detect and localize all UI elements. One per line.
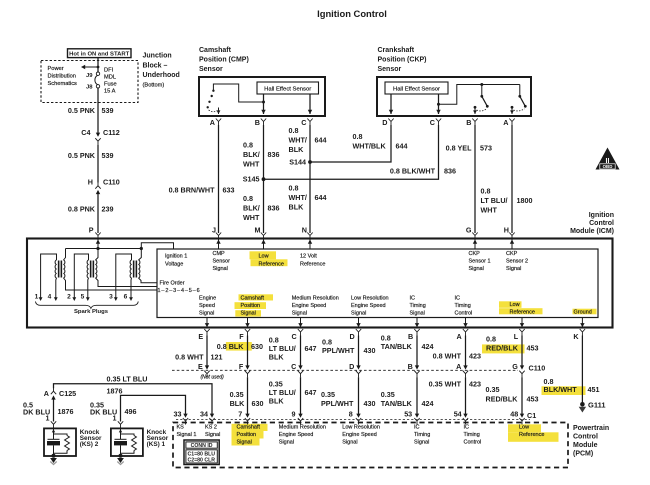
spark plugs brace: [35, 302, 138, 309]
svg-text:Engine: Engine: [199, 296, 216, 302]
svg-text:BLK: BLK: [269, 353, 285, 362]
svg-text:Ground: Ground: [574, 310, 592, 316]
CKP internal bus from hall to trigger switches: [439, 85, 520, 105]
spark plug 4 wire: [55, 278, 58, 298]
svg-text:B: B: [255, 118, 260, 127]
highlight: Low Reference (ICM pin M label): [250, 251, 277, 259]
svg-text:A: A: [503, 118, 508, 127]
svg-text:Low Resolution: Low Resolution: [351, 296, 389, 302]
svg-text:E: E: [198, 332, 203, 341]
svg-text:S145: S145: [243, 175, 260, 184]
svg-text:0.8 YEL: 0.8 YEL: [446, 144, 472, 153]
svg-text:IC: IC: [414, 424, 420, 430]
svg-text:S144: S144: [289, 158, 306, 167]
wire: 0.8 BLK/WHT 836 (S145 to ICM M): [263, 179, 265, 233]
powertrain control module (PCM) dashed box: [173, 423, 568, 468]
svg-text:647: 647: [305, 388, 317, 397]
svg-text:8: 8: [349, 409, 353, 418]
svg-text:Hot in ON and START: Hot in ON and START: [69, 51, 130, 57]
svg-text:0.8: 0.8: [289, 126, 299, 135]
svg-text:(PCM): (PCM): [573, 451, 593, 458]
svg-text:C112: C112: [103, 128, 120, 137]
svg-text:Spark Plugs: Spark Plugs: [74, 309, 109, 315]
svg-text:BLK/: BLK/: [243, 204, 260, 213]
svg-text:WHT/: WHT/: [289, 193, 307, 202]
pin A (ICM bottom): [465, 318, 467, 324]
svg-text:1: 1: [46, 413, 50, 422]
svg-text:IC: IC: [464, 424, 470, 430]
knock sensor KS2: [44, 428, 76, 456]
svg-text:Sensor: Sensor: [378, 66, 402, 73]
svg-text:239: 239: [102, 205, 114, 214]
svg-text:644: 644: [396, 142, 408, 151]
CONN ID table: [184, 440, 219, 465]
ignition coil 2: [87, 260, 97, 278]
svg-text:J8: J8: [86, 85, 93, 91]
ICM inner module block: [157, 249, 598, 318]
fuse: DFI MDL Fuse 15 A: [96, 72, 99, 75]
svg-text:BLK: BLK: [269, 397, 285, 406]
svg-text:0.8 BLK: 0.8 BLK: [217, 342, 245, 351]
wire: 0.8 BLK 630 (ICM F to connector): [247, 340, 249, 366]
svg-text:TAN/BLK: TAN/BLK: [381, 342, 413, 351]
svg-text:Position: Position: [241, 303, 261, 309]
svg-text:D: D: [382, 118, 387, 127]
svg-text:1876: 1876: [58, 407, 74, 416]
svg-text:C110: C110: [103, 178, 120, 187]
svg-text:BLK/WHT: BLK/WHT: [544, 385, 578, 394]
svg-text:F: F: [239, 362, 244, 371]
CMP hall leg to pin C: [309, 94, 311, 114]
svg-text:4: 4: [48, 294, 52, 301]
svg-text:D: D: [349, 362, 354, 371]
svg-text:2: 2: [67, 294, 71, 301]
svg-text:WHT: WHT: [481, 206, 498, 215]
svg-text:CKP: CKP: [506, 251, 518, 257]
svg-text:0.35: 0.35: [486, 385, 500, 394]
svg-text:B: B: [466, 118, 471, 127]
svg-text:Sensor 2: Sensor 2: [506, 258, 528, 264]
svg-text:15 A: 15 A: [104, 89, 116, 95]
wire: 0.8 WHT 121 (ICM E to connector): [206, 340, 208, 366]
wire: feed from Hot box into junction block: [97, 58, 99, 72]
svg-text:Signal 1: Signal 1: [177, 432, 197, 438]
svg-text:Signal: Signal: [414, 439, 429, 445]
svg-text:RED/BLK: RED/BLK: [486, 344, 519, 353]
svg-text:IC: IC: [455, 296, 461, 302]
svg-text:KS: KS: [177, 424, 185, 430]
knock sensor KS1: [111, 428, 143, 456]
svg-text:Sensor: Sensor: [213, 258, 231, 264]
svg-text:Timing: Timing: [414, 432, 430, 438]
svg-text:Low Resolution: Low Resolution: [342, 424, 380, 430]
svg-text:Schematics: Schematics: [48, 81, 78, 87]
wire: 0.8 BRN/WHT 633 (CMP A to ICM J): [218, 125, 220, 233]
svg-text:633: 633: [223, 186, 235, 195]
svg-text:Powertrain: Powertrain: [573, 425, 609, 432]
wire: 0.8 WHT/BLK 644 (CKP D to S144): [310, 125, 391, 162]
svg-text:Signal: Signal: [351, 311, 366, 317]
svg-text:Reference: Reference: [510, 310, 535, 316]
svg-text:Crankshaft: Crankshaft: [378, 47, 415, 54]
svg-text:Camshaft: Camshaft: [237, 424, 261, 430]
svg-text:Ignition Control: Ignition Control: [317, 8, 387, 19]
svg-text:J9: J9: [86, 73, 93, 79]
svg-text:0.8: 0.8: [289, 184, 299, 193]
svg-text:C2=80 CLR: C2=80 CLR: [188, 458, 216, 464]
svg-text:0.8: 0.8: [353, 132, 363, 141]
svg-text:Distribution: Distribution: [48, 74, 76, 80]
svg-text:BLK: BLK: [230, 399, 246, 408]
svg-text:430: 430: [364, 399, 376, 408]
svg-text:Power: Power: [48, 66, 64, 72]
ignition coil 1: [55, 260, 65, 278]
svg-text:0.35: 0.35: [321, 390, 335, 399]
wire: 0.8 LT BLU/WHT 1800 (CKP A to ICM H): [511, 125, 513, 233]
svg-text:F: F: [239, 332, 244, 341]
wire: 0.8 PPL/WHT 430 (ICM D to connector): [358, 340, 360, 366]
svg-text:A: A: [456, 362, 461, 371]
svg-text:Engine Speed: Engine Speed: [292, 303, 327, 309]
wire: 0.8 BLK/WHT 836 (CMP B to splice S145): [263, 125, 265, 179]
svg-text:539: 539: [102, 151, 114, 160]
svg-text:Low: Low: [259, 254, 269, 260]
svg-text:Camshaft: Camshaft: [199, 47, 232, 54]
wire: 0.35 DK BLU 496 (KS1 to PCM 33): [121, 395, 186, 421]
svg-text:D: D: [349, 332, 354, 341]
svg-text:0.35 WHT: 0.35 WHT: [429, 380, 462, 389]
CMP switch output to pin A: [218, 108, 220, 115]
svg-text:Sensor: Sensor: [199, 66, 223, 73]
svg-text:453: 453: [527, 344, 539, 353]
ignition 1 voltage bus inside ICM: [66, 243, 174, 249]
svg-text:423: 423: [469, 380, 481, 389]
svg-text:Position (CKP): Position (CKP): [378, 57, 427, 64]
svg-text:PPL/WHT: PPL/WHT: [321, 399, 354, 408]
wire: 0.5 PNK 539 (fuse to C112): [97, 88, 99, 136]
svg-text:OBD: OBD: [603, 164, 613, 169]
svg-text:430: 430: [364, 346, 376, 355]
svg-text:Underhood: Underhood: [143, 72, 180, 79]
svg-text:C: C: [291, 332, 296, 341]
svg-text:54: 54: [454, 409, 462, 418]
spark plug 6 wire: [130, 278, 133, 298]
pin B (ICM bottom): [416, 318, 418, 324]
svg-text:6: 6: [124, 294, 128, 301]
wire: 0.8 WHT/BLK 644 (CMP C to splice S144): [309, 125, 311, 162]
svg-text:Signal: Signal: [469, 266, 484, 272]
wire: 0.8 PNK 239 (C110 to ICM pin P): [97, 194, 99, 233]
svg-text:Reference: Reference: [519, 432, 544, 438]
coil 2 primary feed stub: [96, 249, 99, 261]
wire: 0.35 LT BLU 1876 (C125 to PCM 34): [54, 384, 213, 415]
CKP hall leg to pin D: [390, 94, 392, 114]
svg-text:0.35: 0.35: [230, 390, 244, 399]
svg-text:Signal: Signal: [292, 311, 307, 317]
ground G111: [580, 402, 585, 407]
svg-text:121: 121: [211, 353, 223, 362]
svg-text:Hall Effect Sensor: Hall Effect Sensor: [393, 86, 440, 92]
coil 3 primary feed stub: [139, 249, 142, 261]
svg-text:BLK/: BLK/: [243, 150, 260, 159]
svg-text:12 Volt: 12 Volt: [300, 254, 317, 260]
svg-text:C1: C1: [527, 411, 536, 420]
svg-text:WHT/: WHT/: [289, 136, 307, 145]
pin F (ICM bottom): [247, 318, 249, 324]
svg-text:Position (CMP): Position (CMP): [199, 57, 249, 64]
wire: 0.5 PNK 539 (C112 to C110): [97, 145, 99, 183]
svg-text:WHT: WHT: [243, 213, 260, 222]
svg-text:5: 5: [81, 294, 85, 301]
ignition coil 3: [130, 260, 140, 278]
wire: 0.8 LT BLU/BLK 647 (ICM C to connector): [300, 340, 302, 366]
svg-text:1: 1: [113, 413, 117, 422]
wire: 0.8 BLK/WHT 836 (CKP C to S145): [264, 125, 439, 179]
highlight: BLK in wire label 0.8 BLK 630: [226, 342, 252, 351]
svg-text:J: J: [212, 226, 216, 235]
coil 1 control line to module: [64, 278, 158, 290]
pin C (ICM bottom): [300, 318, 302, 324]
svg-text:0.35 LT BLU: 0.35 LT BLU: [107, 375, 148, 384]
connector C112 pin C4: [96, 133, 100, 137]
svg-text:451: 451: [588, 385, 600, 394]
CMP trigger switch symbol: [213, 84, 263, 102]
pin K (ICM bottom): [581, 318, 583, 324]
connector C110 pin H (feed): [95, 182, 100, 189]
svg-text:48: 48: [510, 409, 518, 418]
svg-text:C4: C4: [81, 128, 90, 137]
crankshaft position sensor box: [377, 77, 531, 116]
svg-text:Position: Position: [237, 432, 257, 438]
connector C125 pin A: [51, 388, 56, 395]
highlight: Low Reference (ICM pin L label): [499, 301, 522, 308]
node: Hot in ON and START feed box: [68, 49, 132, 58]
svg-text:424: 424: [422, 399, 434, 408]
svg-text:Timing: Timing: [455, 303, 471, 309]
svg-text:Module (ICM): Module (ICM): [570, 228, 614, 235]
svg-text:Medium Resolution: Medium Resolution: [292, 296, 339, 302]
inline connector line (ICM harness): [172, 369, 518, 371]
wire: 0.35 WHT 423 (to PCM 54): [465, 377, 467, 414]
svg-text:Control: Control: [589, 220, 614, 227]
svg-text:7: 7: [238, 409, 242, 418]
highlight: Ground (ICM pin K label): [573, 309, 597, 315]
svg-text:0.8 BRN/WHT: 0.8 BRN/WHT: [169, 186, 216, 195]
svg-text:A: A: [44, 389, 49, 398]
svg-text:Speed: Speed: [199, 303, 215, 309]
highlight: BLK/WHT in wire label 0.8 BLK/WHT 451: [542, 386, 586, 395]
svg-text:0.8: 0.8: [243, 194, 253, 203]
svg-text:RED/BLK: RED/BLK: [486, 395, 519, 404]
svg-text:Ignition: Ignition: [589, 212, 614, 219]
wire: 0.8 WHT 423 (ICM A to connector): [465, 340, 467, 366]
svg-text:423: 423: [469, 352, 481, 361]
svg-text:9: 9: [292, 409, 296, 418]
wire: 0.35 RED/BLK 453 (to PCM 48): [521, 377, 523, 414]
svg-text:Hall Effect Sensor: Hall Effect Sensor: [264, 86, 311, 92]
svg-text:1800: 1800: [517, 196, 533, 205]
svg-text:Reference: Reference: [259, 262, 284, 268]
coil 1 primary feed stub: [64, 249, 66, 261]
svg-text:0.8: 0.8: [486, 335, 496, 344]
svg-text:G111: G111: [588, 401, 606, 410]
svg-text:G: G: [512, 362, 518, 371]
svg-text:Timing: Timing: [464, 432, 480, 438]
svg-text:Sensor 1: Sensor 1: [469, 258, 491, 264]
svg-text:0.5 PNK: 0.5 PNK: [68, 151, 96, 160]
highlight: RED/BLK in wire label 0.8 RED/BLK 453: [482, 344, 525, 353]
svg-text:Module: Module: [573, 442, 598, 449]
svg-text:0.8 WHT: 0.8 WHT: [175, 353, 204, 362]
wire: 0.35 PPL/WHT 430 (to PCM 8): [358, 377, 360, 414]
node: P feed junction: [96, 247, 99, 250]
svg-text:Signal: Signal: [410, 311, 425, 317]
svg-text:KS 2: KS 2: [205, 424, 217, 430]
pin E (ICM bottom): [206, 318, 208, 324]
svg-text:Timing: Timing: [410, 303, 426, 309]
svg-text:C125: C125: [59, 389, 76, 398]
CKP trigger switch 1: [481, 85, 483, 97]
svg-text:1876: 1876: [107, 387, 123, 396]
svg-text:Engine Speed: Engine Speed: [351, 303, 386, 309]
svg-text:CKP: CKP: [469, 251, 481, 257]
svg-text:C: C: [291, 362, 296, 371]
svg-text:BLK: BLK: [289, 203, 305, 212]
svg-text:H: H: [504, 226, 509, 235]
pin L (ICM bottom): [521, 318, 523, 324]
svg-text:Control: Control: [573, 434, 598, 441]
junction block - underhood (dashed box): [41, 61, 138, 103]
svg-text:C110: C110: [529, 364, 546, 373]
svg-text:Fuse: Fuse: [104, 82, 117, 88]
svg-text:Signal: Signal: [342, 439, 357, 445]
CMP hall leg to pin B: [263, 94, 265, 114]
wire: ground wire ICM K to G111: [581, 340, 583, 403]
svg-text:496: 496: [125, 407, 137, 416]
svg-text:53: 53: [404, 409, 412, 418]
svg-text:Reference: Reference: [300, 262, 325, 268]
wire: 0.8 YEL 573 (CKP B to ICM G): [474, 125, 476, 233]
wire: 0.5 DK BLU 1876 (C125 to KS2): [53, 399, 55, 421]
svg-text:33: 33: [174, 409, 182, 418]
svg-text:Control: Control: [455, 311, 473, 317]
svg-text:0.5 PNK: 0.5 PNK: [68, 106, 96, 115]
svg-text:630: 630: [252, 399, 264, 408]
svg-text:TAN/BLK: TAN/BLK: [381, 399, 413, 408]
svg-text:H: H: [88, 178, 93, 187]
svg-text:K: K: [573, 332, 579, 341]
wire: 0.35 BLK 630 (to PCM 7): [247, 377, 249, 414]
svg-text:1: 1: [35, 294, 39, 301]
svg-text:3: 3: [109, 294, 113, 301]
pin P arrow into ICM: [97, 239, 99, 249]
svg-text:Signal: Signal: [237, 439, 252, 445]
wire: 0.8 WHT/BLK 644 (S144 to ICM N): [309, 162, 311, 233]
svg-text:IC: IC: [410, 296, 416, 302]
svg-text:LT BLU/: LT BLU/: [481, 196, 508, 205]
svg-text:0.8 BLK/WHT: 0.8 BLK/WHT: [390, 167, 436, 176]
svg-text:836: 836: [268, 204, 280, 213]
wire: 0.35 TAN/BLK 424 (to PCM 53): [416, 377, 418, 414]
splice S144: [308, 160, 312, 164]
svg-text:CONN ID: CONN ID: [191, 443, 213, 449]
node: coil 3 feed junction: [140, 247, 143, 250]
camshaft position sensor box: [199, 77, 325, 116]
svg-text:1–2–3–4–5–6: 1–2–3–4–5–6: [158, 288, 201, 294]
svg-text:424: 424: [422, 342, 434, 351]
highlight: Camshaft Position Signal (PCM pin 7 label): [232, 424, 268, 431]
svg-text:34: 34: [200, 409, 208, 418]
svg-text:644: 644: [315, 136, 327, 145]
coil 3 control line to module: [139, 278, 158, 283]
svg-text:N: N: [302, 226, 307, 235]
svg-text:P: P: [89, 226, 94, 235]
svg-text:647: 647: [305, 344, 317, 353]
svg-text:Engine Speed: Engine Speed: [279, 432, 314, 438]
svg-text:836: 836: [444, 167, 456, 176]
spark plug 3 wire: [116, 254, 132, 298]
highlight: Camshaft Position Signal (ICM pin F label): [239, 294, 274, 300]
svg-text:Signal: Signal: [241, 311, 256, 317]
wire: 0.8 TAN/BLK 424 (ICM B to connector): [416, 340, 418, 366]
svg-text:Signal: Signal: [205, 432, 220, 438]
svg-text:(KS) 2: (KS) 2: [80, 441, 99, 448]
svg-text:0.8 WHT: 0.8 WHT: [433, 352, 462, 361]
ignition control module (ICM) outer box: [27, 239, 613, 328]
OBD II symbol: [596, 148, 620, 170]
svg-text:B: B: [408, 362, 413, 371]
svg-text:MDL: MDL: [104, 75, 116, 81]
svg-text:Engine Speed: Engine Speed: [342, 432, 377, 438]
svg-text:0.8 PNK: 0.8 PNK: [68, 205, 96, 214]
wire: 0.35 LT BLU/BLK 647 (to PCM 9): [300, 377, 302, 414]
svg-text:Medium Resolution: Medium Resolution: [279, 424, 326, 430]
CKP trigger switch 2: [519, 85, 521, 97]
svg-text:Camshaft: Camshaft: [241, 296, 265, 302]
svg-text:573: 573: [480, 144, 492, 153]
svg-text:453: 453: [527, 395, 539, 404]
svg-text:C: C: [301, 118, 306, 127]
hall effect sensor (CKP): [385, 82, 448, 94]
svg-text:BLK: BLK: [289, 145, 305, 154]
svg-text:Voltage: Voltage: [165, 262, 183, 268]
svg-text:(Not used): (Not used): [201, 374, 225, 380]
svg-text:Junction: Junction: [143, 53, 172, 60]
svg-text:0.35: 0.35: [381, 390, 395, 399]
pin D (ICM bottom): [358, 318, 360, 324]
svg-text:WHT/BLK: WHT/BLK: [353, 142, 387, 151]
svg-text:C: C: [430, 118, 435, 127]
svg-text:E: E: [198, 362, 203, 371]
svg-text:Signal: Signal: [213, 266, 228, 272]
splice S145: [262, 177, 266, 181]
svg-text:L: L: [514, 332, 519, 341]
PCM connector face line: [176, 419, 530, 421]
svg-text:630: 630: [251, 342, 263, 351]
svg-text:Low: Low: [519, 424, 529, 430]
svg-text:644: 644: [315, 193, 327, 202]
svg-text:(KS) 1: (KS) 1: [147, 441, 166, 448]
svg-text:DFI: DFI: [104, 68, 114, 74]
spark plug 2 wire: [74, 254, 88, 298]
PCM pin entry symbols: [183, 418, 188, 425]
svg-text:G: G: [466, 226, 472, 235]
wire: 0.8 RED/BLK 453 (ICM L to C110): [521, 340, 523, 366]
svg-text:836: 836: [268, 150, 280, 159]
coil 2 control line to module: [96, 278, 158, 287]
svg-text:Signal: Signal: [506, 266, 521, 272]
svg-text:M: M: [255, 226, 261, 235]
